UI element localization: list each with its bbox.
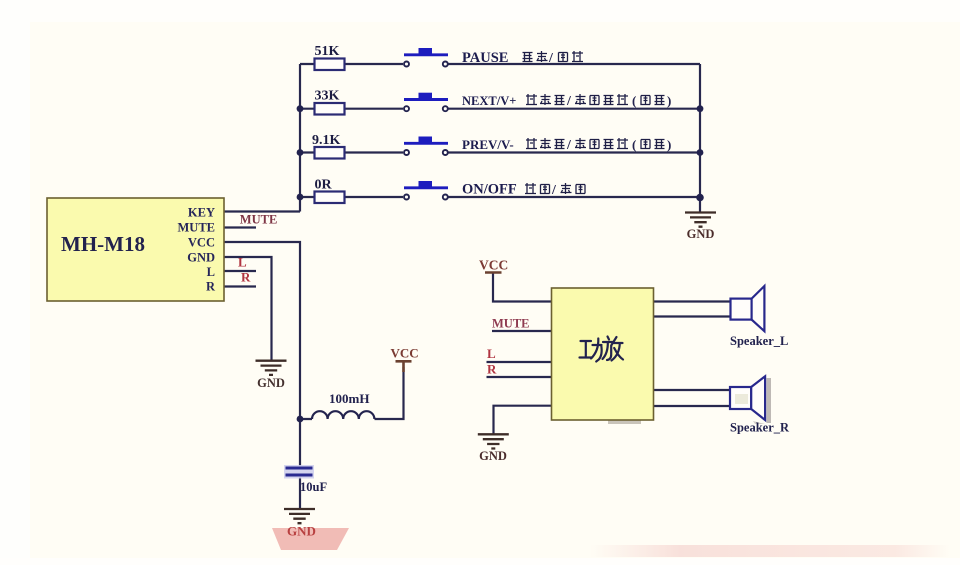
svg-text:ON/OFF: ON/OFF — [462, 182, 517, 198]
svg-text:VCC: VCC — [391, 346, 419, 361]
svg-text:): ) — [667, 93, 671, 108]
svg-text:10uF: 10uF — [300, 480, 327, 494]
svg-text:33K: 33K — [315, 89, 340, 104]
svg-text:GND: GND — [257, 376, 285, 390]
svg-text:Speaker_L: Speaker_L — [730, 334, 788, 348]
svg-text:): ) — [667, 137, 671, 152]
svg-text:0R: 0R — [315, 178, 333, 193]
svg-text:GND: GND — [187, 251, 215, 265]
svg-text:NEXT/V+: NEXT/V+ — [462, 94, 516, 108]
svg-text:MUTE: MUTE — [178, 221, 216, 235]
svg-text:L: L — [207, 265, 215, 279]
svg-text:PAUSE: PAUSE — [462, 50, 508, 66]
svg-text:GND: GND — [287, 524, 316, 539]
svg-text:R: R — [241, 270, 251, 285]
svg-text:GND: GND — [687, 227, 715, 241]
svg-text:100mH: 100mH — [329, 391, 369, 406]
svg-text:KEY: KEY — [188, 206, 215, 220]
svg-text:GND: GND — [479, 449, 507, 463]
svg-text:MUTE: MUTE — [492, 317, 530, 331]
svg-text:MH-M18: MH-M18 — [61, 232, 145, 256]
svg-text:Speaker_R: Speaker_R — [730, 421, 790, 435]
svg-text:(: ( — [632, 93, 636, 108]
svg-text:R: R — [206, 280, 216, 294]
svg-text:VCC: VCC — [188, 236, 215, 250]
svg-text:PREV/V-: PREV/V- — [462, 137, 514, 152]
svg-text:(: ( — [632, 137, 636, 152]
svg-text:R: R — [487, 362, 497, 377]
svg-text:51K: 51K — [315, 44, 340, 59]
svg-text:VCC: VCC — [479, 257, 508, 272]
svg-text:MUTE: MUTE — [240, 213, 277, 227]
svg-text:9.1K: 9.1K — [312, 133, 341, 148]
svg-text:L: L — [238, 255, 247, 270]
svg-text:L: L — [487, 346, 496, 361]
